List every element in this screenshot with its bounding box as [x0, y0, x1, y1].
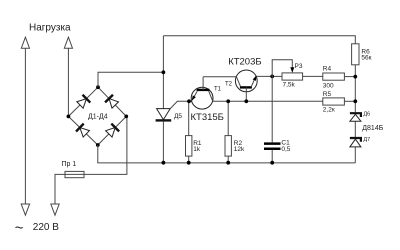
transistor T1 КТ315Б — [190, 77, 213, 109]
svg-text:12k: 12k — [234, 146, 245, 153]
svg-text:Т2: Т2 — [225, 81, 233, 87]
wire to bridge left node — [67, 48, 69, 116]
transistor T2 КТ203Б — [235, 70, 258, 101]
node bus R1 — [187, 161, 191, 165]
svg-text:R5: R5 — [323, 91, 332, 98]
node bus C1 — [270, 161, 274, 165]
node bus R2 — [226, 161, 230, 165]
wire left vertical full — [24, 48, 26, 204]
svg-text:1k: 1k — [193, 146, 201, 153]
capacitor C1 — [264, 142, 281, 145]
node junction top rail — [162, 70, 166, 74]
resistor R4 — [323, 73, 345, 80]
node R2 top — [226, 99, 230, 103]
diode Д1 (left-top arm) — [76, 95, 90, 109]
diode Д3 (bottom-left arm) — [76, 124, 90, 138]
svg-text:Д5: Д5 — [174, 113, 182, 120]
svg-text:0,5: 0,5 — [281, 146, 290, 153]
svg-text:56к: 56к — [361, 55, 371, 62]
resistor R2 — [227, 101, 229, 135]
node bridge left — [67, 115, 71, 119]
svg-text:Пр 1: Пр 1 — [62, 161, 77, 168]
wire top bus — [163, 36, 355, 44]
diode Д2 (right-top arm) — [105, 95, 119, 109]
diode Д4 (bottom-right arm) — [105, 124, 119, 138]
svg-text:КТ203Б: КТ203Б — [228, 56, 261, 67]
AC terminal arrow down left — [21, 204, 29, 215]
node R5 right — [353, 99, 357, 103]
wire T2 emitter to P3 — [257, 75, 283, 77]
svg-text:R4: R4 — [323, 65, 332, 72]
wire bottom bus — [98, 145, 356, 163]
wire P3 to R4 — [303, 75, 323, 77]
node wiper junction — [270, 75, 274, 79]
diode Д5 — [157, 109, 171, 120]
svg-text:Д1-Д4: Д1-Д4 — [88, 113, 108, 120]
wire Д5 anode to T1 emitter junction — [170, 101, 189, 108]
zener Д7 — [350, 138, 361, 142]
svg-text:Р3: Р3 — [295, 63, 303, 70]
wire T1 base to T2 collector — [203, 76, 236, 78]
svg-text:2,2к: 2,2к — [323, 106, 335, 113]
svg-text:300: 300 — [323, 82, 334, 89]
load terminal arrow up left — [21, 37, 29, 48]
svg-text:Д6: Д6 — [363, 112, 370, 118]
fuse Пр1 wire left — [55, 174, 65, 204]
node bridge right — [124, 115, 128, 119]
svg-text:Т1: Т1 — [214, 86, 222, 92]
node bridge top — [96, 85, 100, 89]
zener Д6 — [350, 113, 361, 117]
fuse Пр1 — [65, 173, 84, 175]
wire base bus horizontal — [189, 100, 323, 102]
svg-text:220 В: 220 В — [33, 222, 59, 233]
node T1 emitter junction — [187, 99, 191, 103]
node bridge bottom — [96, 143, 100, 147]
resistor R1 — [188, 101, 190, 135]
resistor R5 — [323, 98, 345, 105]
wire right rail — [354, 65, 356, 112]
node bus Д5 — [162, 161, 166, 165]
node R4 right — [353, 75, 357, 79]
svg-text:Нагрузка: Нагрузка — [29, 23, 71, 34]
svg-text:КТ315Б: КТ315Б — [191, 112, 224, 123]
wire P3 wiper loop to C1 — [272, 60, 292, 143]
wire bridge top to Д5 rail — [98, 72, 163, 87]
svg-text:7,5k: 7,5k — [283, 82, 296, 89]
wire bridge arms — [68, 87, 98, 116]
wire Д5 rail vertical — [162, 36, 164, 109]
AC terminal arrow down right — [51, 204, 59, 215]
wire fuse to bridge right node — [84, 116, 127, 174]
node T2 base — [244, 99, 248, 103]
svg-text:~: ~ — [15, 220, 24, 237]
svg-text:Д814Б: Д814Б — [362, 125, 383, 132]
resistor R6 — [352, 44, 359, 65]
load terminal arrow up right — [64, 37, 72, 48]
svg-text:Д7: Д7 — [363, 137, 370, 143]
wire Д5 to bottom bus — [162, 122, 164, 163]
potentiometer P3 — [282, 73, 303, 80]
